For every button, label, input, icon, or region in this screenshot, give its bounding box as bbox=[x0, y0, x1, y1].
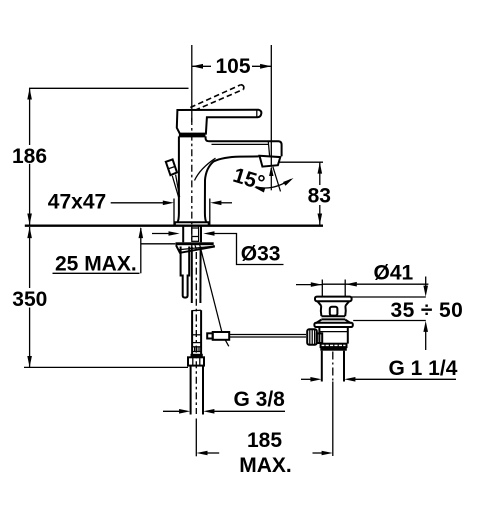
25 MAX reference line to bracket bbox=[141, 243, 176, 245]
supply pipe G3/8 bbox=[190, 366, 192, 415]
drain centerline solid extension to 185 dim bbox=[332, 382, 334, 457]
dimension 186 top ext line bbox=[29, 87, 189, 89]
15-degree annotation vertical line with up arrow bbox=[270, 168, 272, 190]
svg-text:MAX.: MAX. bbox=[239, 454, 292, 477]
15-degree tilted line bbox=[273, 167, 281, 192]
dimension 35-50 bottom line bbox=[353, 320, 426, 322]
dimension 185 MAX ext line left bbox=[195, 419, 197, 457]
35-50 top arrow pointing down bbox=[425, 277, 427, 288]
body right edge with spout arm bbox=[206, 136, 282, 156]
dimension 186 line + arrows bbox=[29, 88, 31, 145]
svg-text:186: 186 bbox=[12, 145, 47, 168]
supply hose centerline (dash-dot) bbox=[195, 252, 197, 414]
diameter 33 leader bbox=[212, 234, 284, 265]
drain tail pipe bbox=[321, 351, 323, 382]
hex nut on supply pipe bbox=[188, 357, 204, 365]
dimension 35-50 top line bbox=[352, 296, 426, 298]
drain flange rim bbox=[315, 297, 352, 302]
drain skirt bbox=[316, 320, 322, 324]
dimension 83 top reference line bbox=[279, 161, 323, 163]
pop-up rod knob bbox=[166, 159, 177, 175]
svg-text:Ø33: Ø33 bbox=[241, 243, 281, 266]
mounting shank below deck bbox=[182, 226, 184, 243]
svg-text:25 MAX.: 25 MAX. bbox=[55, 252, 137, 275]
dimension 105 line + arrows bbox=[192, 65, 211, 67]
lever bar end inner line bbox=[256, 110, 258, 117]
spout end cap inner line bbox=[268, 141, 269, 156]
drain coupling nut knurled bbox=[321, 344, 347, 347]
35-50 bottom arrow pointing up bbox=[425, 331, 427, 351]
svg-text:47x47: 47x47 bbox=[48, 191, 106, 214]
G 1 1/4 left outside arrow bbox=[301, 378, 316, 380]
svg-text:G 3/8: G 3/8 bbox=[234, 388, 286, 411]
G 3/8 left outside arrow bbox=[163, 410, 184, 412]
47x47 leader left bbox=[111, 202, 165, 204]
drain collar band bbox=[321, 315, 345, 317]
diameter 41 left arrow bbox=[296, 284, 322, 286]
faucet centerline (dash-dot) bbox=[191, 118, 193, 250]
dimension 185 MAX line + arrows bbox=[196, 451, 207, 456]
svg-text:G 1 1/4: G 1 1/4 bbox=[389, 357, 458, 380]
knob attach piece bbox=[317, 333, 322, 343]
drain cup walls bbox=[320, 306, 323, 316]
main supply hose lower part bbox=[191, 310, 193, 354]
pop-up transfer rod diagonal bbox=[200, 244, 223, 333]
rod tail below joint bbox=[225, 340, 229, 347]
main supply hose upper part bbox=[191, 247, 193, 303]
horizontal rod to drain bbox=[229, 334, 306, 336]
dimension 83 line + arrows bbox=[319, 162, 321, 185]
svg-text:185: 185 bbox=[247, 429, 282, 452]
body left edge bbox=[178, 136, 179, 222]
handle block and lever bar outline bbox=[177, 110, 262, 134]
spout underside fillet curve bbox=[205, 156, 259, 222]
left supply hose stub bbox=[181, 247, 190, 298]
deck line bbox=[25, 225, 323, 227]
svg-text:105: 105 bbox=[215, 55, 250, 78]
pop-up rod bbox=[172, 176, 179, 198]
handle lever raised (dashed) bbox=[190, 85, 241, 108]
base plate bbox=[175, 222, 209, 225]
knurled knob on drain bbox=[307, 329, 317, 345]
dimension 105 ext line left bbox=[191, 45, 193, 122]
drain funnel below rim bbox=[317, 301, 321, 306]
svg-text:350: 350 bbox=[12, 288, 47, 311]
svg-text:35 ÷ 50: 35 ÷ 50 bbox=[391, 299, 464, 322]
drain centerline dash-dot bbox=[332, 352, 334, 382]
joint band under handle bbox=[179, 134, 206, 136]
drain disc bbox=[314, 323, 352, 327]
svg-text:Ø41: Ø41 bbox=[374, 261, 414, 284]
dimension diameter 33 arrows bbox=[152, 233, 172, 235]
47x47 leader right bbox=[210, 201, 221, 206]
drain body bbox=[318, 327, 320, 344]
svg-text:83: 83 bbox=[308, 185, 331, 208]
350 bottom reference line bbox=[24, 366, 188, 368]
mounting bracket bbox=[176, 242, 214, 245]
spout arm inner top line bbox=[212, 143, 269, 145]
dimension diameter 41 ext lines bbox=[321, 280, 323, 297]
dimension 105 ext line right bbox=[270, 45, 272, 166]
drain square hole bbox=[330, 307, 338, 316]
aerator tip (tilted) bbox=[260, 156, 281, 167]
inner fillet thin curve bbox=[195, 158, 216, 180]
dimension 350 line + arrows bbox=[29, 227, 31, 288]
15-degree arc with arrowheads bbox=[256, 179, 292, 188]
25 MAX leader vertical with up arrow bbox=[140, 228, 142, 273]
pop-up rod joint block bbox=[213, 332, 230, 340]
